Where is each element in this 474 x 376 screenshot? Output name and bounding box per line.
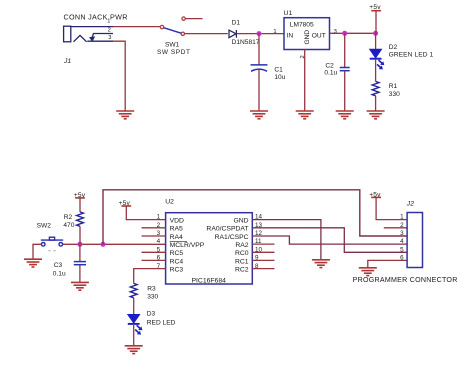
svg-text:VDD: VDD — [170, 217, 184, 224]
svg-text:R1: R1 — [389, 83, 398, 90]
resistor R2 — [77, 212, 84, 226]
svg-text:RA4: RA4 — [170, 234, 183, 241]
U2 pin2 stub — [142, 227, 166, 229]
wire J1 pin3 down to ground — [113, 41, 125, 110]
svg-text:2: 2 — [400, 222, 404, 229]
svg-text:RC3: RC3 — [170, 267, 184, 274]
wire SW1 upper throw — [185, 18, 202, 20]
svg-text:RC1: RC1 — [235, 258, 249, 265]
ground (R1) — [367, 111, 385, 119]
svg-text:C1: C1 — [274, 67, 283, 74]
svg-text:3: 3 — [108, 35, 111, 41]
U2 left pin names — [170, 217, 205, 273]
wire J1 pin1 to SW1 — [113, 26, 160, 28]
svg-text:C3: C3 — [54, 262, 63, 269]
capacitor C2 — [340, 68, 350, 71]
wire C3 to ground — [79, 265, 81, 282]
resistor R1 — [372, 81, 379, 95]
wire +5v to rail — [375, 11, 377, 34]
svg-text:4: 4 — [400, 238, 404, 245]
switch SW1 (SPDT) — [160, 17, 185, 36]
wire D3 to ground — [133, 324, 135, 346]
wire +5v to R2 — [79, 198, 81, 212]
svg-text:RC4: RC4 — [170, 258, 184, 265]
svg-text:5: 5 — [400, 246, 404, 253]
wire R2 to node — [79, 226, 81, 244]
ground (C3) — [71, 282, 89, 290]
wire D1 to U1 pin1 — [236, 33, 284, 35]
svg-text:1: 1 — [157, 214, 161, 221]
U2 right pin names — [206, 217, 248, 273]
ground (SW2) — [24, 259, 42, 267]
svg-text:6: 6 — [400, 255, 404, 262]
svg-text:0.1u: 0.1u — [53, 270, 66, 277]
svg-text:GND: GND — [304, 30, 311, 45]
svg-text:D3: D3 — [147, 310, 156, 317]
wire SW1 to D1 — [185, 33, 228, 35]
wire SW2 left to ground — [33, 244, 41, 258]
svg-text:1: 1 — [400, 214, 404, 221]
wire node to C1 — [258, 34, 260, 65]
U2 pin9 stub — [252, 259, 274, 261]
wire U1 pin2 to ground — [304, 50, 306, 111]
U2 pin8 stub — [252, 268, 274, 270]
svg-text:330: 330 — [389, 91, 400, 98]
resistor R3 — [130, 283, 137, 297]
svg-text:MCLR/VPP: MCLR/VPP — [170, 242, 205, 249]
svg-text:OUT: OUT — [312, 33, 326, 40]
svg-text:GND: GND — [233, 217, 248, 224]
svg-text:1: 1 — [273, 29, 276, 35]
U2 pin3 stub — [142, 235, 166, 237]
U2 right pin numbers — [255, 214, 263, 270]
wire SW2 right to U2 MCLR — [63, 243, 166, 245]
svg-text:2: 2 — [108, 28, 111, 34]
wire VPP riser to J2 pin3 — [103, 190, 407, 245]
svg-text:RC5: RC5 — [170, 250, 184, 257]
svg-text:SW2: SW2 — [37, 222, 52, 229]
svg-text:D1: D1 — [232, 20, 241, 27]
svg-text:RA2: RA2 — [235, 242, 248, 249]
U2 pin5 stub — [142, 251, 166, 253]
svg-text:0.1u: 0.1u — [324, 69, 337, 76]
switch SW2 pushbutton — [41, 237, 63, 246]
svg-text:4: 4 — [157, 238, 161, 245]
node junction LED tee — [373, 31, 378, 36]
svg-text:10u: 10u — [274, 74, 285, 81]
wire D2 to R1 — [375, 59, 377, 82]
LED D3 — [128, 314, 143, 334]
svg-text:RA0/CSPDAT: RA0/CSPDAT — [206, 226, 248, 233]
wire +5v to VDD — [126, 206, 165, 220]
svg-text:CONN JACK PWR: CONN JACK PWR — [64, 12, 128, 21]
ground (J1) — [116, 111, 134, 119]
svg-text:SW1: SW1 — [165, 42, 180, 49]
connector J1 (DC power jack) — [64, 26, 113, 42]
U2 left pin numbers — [157, 214, 161, 270]
svg-text:RA1/CSPC: RA1/CSPC — [215, 234, 249, 241]
wire +5v to J2 pin1 — [376, 197, 407, 219]
wire R1 to ground — [375, 96, 377, 111]
svg-text:D2: D2 — [389, 44, 398, 51]
svg-text:R3: R3 — [147, 285, 156, 292]
wire node to C3 — [79, 244, 81, 261]
wire U2 pin13 to J2 pin5 — [252, 228, 407, 253]
U2 pin10 stub — [252, 251, 274, 253]
ground (U2 pin14) — [312, 260, 330, 268]
svg-text:LM7805: LM7805 — [290, 21, 314, 28]
J2 pin2 stub — [384, 227, 407, 229]
U2 pin6 stub — [142, 259, 166, 261]
wire C2 branch — [344, 33, 346, 67]
svg-text:J2: J2 — [406, 201, 414, 208]
wire R3 to D3 — [133, 298, 135, 315]
capacitor C1 (polarized) — [251, 65, 268, 71]
node junction VPP riser — [101, 242, 106, 247]
svg-text:C2: C2 — [325, 62, 334, 69]
wire C1 to ground — [258, 70, 260, 111]
svg-text:J1: J1 — [63, 58, 71, 65]
capacitor C3 — [74, 262, 86, 265]
ground (C1) — [250, 111, 268, 119]
svg-text:PROGRAMMER CONNECTOR: PROGRAMMER CONNECTOR — [353, 276, 458, 284]
ground (C2) — [336, 111, 354, 119]
wire C2 to ground — [344, 71, 346, 110]
wire U2 pin7 to R3 — [134, 269, 166, 284]
svg-text:470: 470 — [63, 222, 74, 229]
svg-text:SW SPDT: SW SPDT — [157, 49, 190, 56]
SW1 lever — [164, 28, 182, 34]
node junction C1 tap — [257, 31, 262, 36]
op-amp U1 LM7805 regulator box — [284, 18, 330, 50]
diode D1 — [229, 30, 236, 38]
LED D2 — [370, 49, 385, 69]
node junction R2/C3 — [77, 242, 82, 247]
wire U2 pin14 to ground — [252, 220, 321, 260]
wire U1 pin3 output rail — [330, 32, 376, 34]
ground (D3) — [125, 346, 143, 354]
svg-text:RED LED: RED LED — [147, 319, 176, 326]
svg-text:RC2: RC2 — [235, 267, 249, 274]
MCLR overline — [170, 240, 187, 242]
svg-text:RA5: RA5 — [170, 226, 183, 233]
ground (J2 pin6) — [359, 268, 377, 276]
svg-text:RC0: RC0 — [235, 250, 249, 257]
svg-text:U2: U2 — [165, 198, 174, 205]
microcontroller U2 PIC16F684 box — [166, 213, 253, 284]
wire U2 pin12 to J2 pin4 — [252, 236, 407, 244]
svg-text:GREEN LED 1: GREEN LED 1 — [389, 52, 434, 59]
ground (U1 pin2) — [296, 111, 314, 119]
wire rail to LED D2 — [375, 33, 377, 49]
U2 pin11 stub — [252, 243, 274, 245]
SW2 dots — [49, 250, 56, 252]
svg-text:R2: R2 — [64, 214, 73, 221]
connector J2 box — [407, 213, 422, 268]
svg-text:D1N5817: D1N5817 — [232, 39, 260, 46]
svg-text:IN: IN — [287, 33, 294, 40]
svg-text:3: 3 — [400, 230, 404, 237]
svg-text:1: 1 — [107, 19, 110, 25]
J2 pin numbers — [400, 214, 404, 262]
svg-text:U1: U1 — [284, 10, 293, 17]
wire J2 pin6 to ground — [368, 260, 407, 267]
node junction C2 tap — [342, 31, 347, 36]
svg-text:330: 330 — [147, 293, 158, 300]
svg-text:PIC16F684: PIC16F684 — [192, 277, 227, 284]
